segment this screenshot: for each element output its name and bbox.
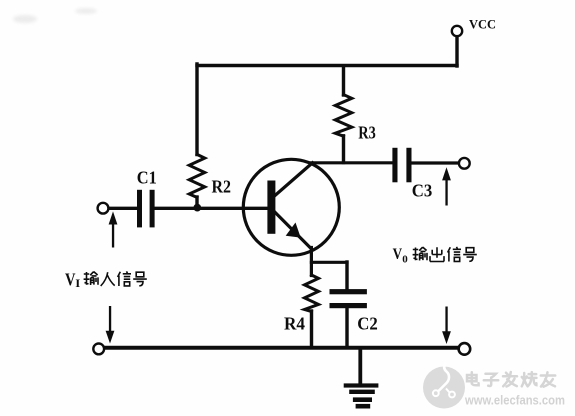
svg-text:C2: C2 (357, 314, 378, 334)
transistor collector diagonal (275, 163, 313, 196)
char 信 (118, 271, 131, 286)
char 电 (467, 372, 479, 385)
svg-text:V: V (65, 270, 76, 290)
char 入 (101, 272, 115, 286)
capacitor C1 (137, 190, 155, 228)
wire R2 bottom stub (195, 197, 198, 207)
char 友 (541, 372, 555, 386)
transistor base bar (267, 181, 275, 234)
svg-text:C1: C1 (137, 167, 157, 187)
wire R3 top stub (342, 67, 345, 95)
arrow input up (109, 211, 118, 247)
arrow output up (442, 167, 451, 205)
transistor Q1 circle (243, 159, 339, 255)
wire bottom rail (106, 346, 459, 350)
svg-text:0: 0 (402, 254, 408, 266)
faint scan smudge 2 (75, 8, 97, 14)
resistor R2 (189, 154, 205, 197)
svg-text:C3: C3 (412, 180, 433, 200)
wire R3 bottom stub (342, 136, 345, 163)
wire left vertical (top rail to R2) (195, 64, 198, 155)
arrow right down (442, 307, 451, 345)
terminal output (459, 158, 470, 169)
capacitor C3 (392, 148, 411, 183)
char 信 (448, 247, 461, 262)
char 发 (503, 372, 517, 387)
node base junction dot (193, 204, 201, 212)
char 子 (484, 374, 498, 386)
wire VCC stub (455, 37, 458, 66)
char 出 (430, 247, 444, 261)
wire C2 top lead (345, 262, 348, 290)
wire C1 to base (155, 207, 268, 210)
char 输 (84, 272, 98, 285)
wire top rail (197, 64, 457, 67)
arrow left down (106, 306, 115, 344)
faint scan smudge 1 (13, 15, 37, 23)
char 烧 (522, 372, 537, 386)
svg-text:I: I (75, 276, 80, 290)
capacitor C2 (330, 289, 367, 308)
watermark text 电子发烧友 (467, 372, 555, 387)
label 输入信号 (input signal) (84, 271, 147, 286)
svg-text:R4: R4 (284, 314, 305, 334)
wire input to C1 (110, 207, 138, 210)
transistor emitter diagonal (275, 212, 311, 249)
VCC terminal (452, 26, 462, 36)
terminal bottom-right (459, 343, 471, 355)
wire collector horizontal (312, 161, 394, 164)
svg-text:V: V (393, 246, 403, 263)
svg-text:VCC: VCC (469, 17, 496, 32)
svg-text:www.elecfans.com: www.elecfans.com (464, 394, 565, 408)
wire C3 to output (412, 161, 459, 164)
watermark logo elecfans (423, 363, 465, 409)
wire C2 bottom lead (345, 308, 348, 347)
char 输 (413, 247, 427, 260)
resistor R3 (335, 95, 352, 137)
terminal input (98, 203, 109, 214)
char 号 (463, 248, 477, 262)
resistor R4 (305, 275, 319, 312)
char 号 (133, 272, 147, 286)
svg-text:R3: R3 (358, 123, 376, 143)
wire emitter vertical top (310, 248, 313, 276)
svg-text:R2: R2 (212, 177, 232, 197)
terminal bottom-left (93, 344, 104, 355)
ground (344, 349, 379, 409)
wire emitter to C2 branch (311, 261, 347, 264)
label 输出信号 (output signal) (413, 247, 477, 262)
wire R4 bottom stub (310, 311, 313, 346)
transistor emitter arrowhead (286, 223, 301, 238)
